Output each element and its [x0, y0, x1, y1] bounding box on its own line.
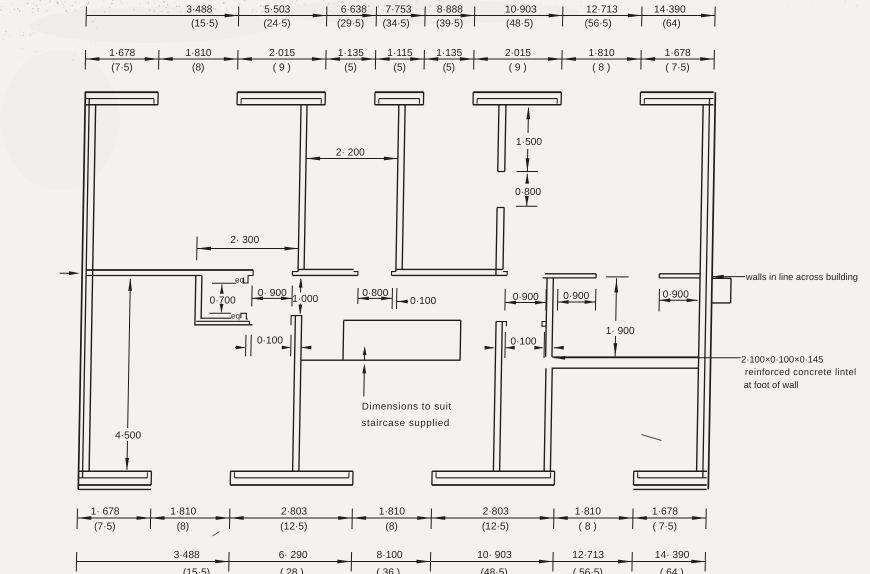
- scan speckle noise top band: [0, 0, 857, 61]
- svg-text:1·678: 1·678: [109, 48, 136, 59]
- spine wall segment C upper line: [396, 268, 503, 270]
- svg-text:( 8 ): ( 8 ): [592, 62, 610, 73]
- svg-text:(7·5): (7·5): [111, 62, 133, 73]
- svg-text:2· 300: 2· 300: [230, 235, 259, 246]
- dimension row 2 arrows: [85, 57, 99, 61]
- spine wall segment B lintel line: [292, 274, 358, 276]
- stray pencil mark right room: [642, 435, 662, 441]
- annotation: walls in line across building (with leader arrows): [712, 275, 724, 279]
- svg-text:(12·5): (12·5): [482, 521, 509, 532]
- svg-text:( 56·5): ( 56·5): [573, 567, 603, 574]
- svg-text:1·135: 1·135: [436, 48, 463, 59]
- svg-text:( 28 ): ( 28 ): [280, 567, 304, 574]
- svg-text:(39·5): (39·5): [436, 18, 463, 29]
- svg-text:0·100: 0·100: [257, 336, 284, 347]
- svg-text:1·810: 1·810: [379, 507, 406, 518]
- spine wall segment A upper line: [86, 269, 253, 271]
- svg-text:( 7·5): ( 7·5): [652, 521, 677, 532]
- spine wall segment C lintel line: [391, 274, 507, 276]
- dimension 2.200 between P1 and P2: [306, 158, 398, 160]
- dimension 4.500 room height left: [128, 279, 131, 428]
- cupboard bottom eq notch: [241, 313, 248, 319]
- svg-text:1·135: 1·135: [338, 48, 365, 59]
- dimension 1.500 on P3 upper stub: [527, 108, 529, 133]
- svg-text:0·900: 0·900: [563, 291, 590, 302]
- svg-text:( 36 ): ( 36 ): [376, 567, 400, 574]
- svg-text:( 7·5): ( 7·5): [665, 62, 690, 73]
- faint paper smudges: [0, 0, 580, 190]
- svg-text:7·753: 7·753: [385, 4, 412, 15]
- svg-text:(8): (8): [385, 521, 398, 532]
- svg-text:1· 900: 1· 900: [606, 326, 635, 337]
- top wall pier 2: [237, 91, 325, 93]
- svg-text:8·888: 8·888: [437, 4, 464, 15]
- dimension row 4 baseline: [77, 561, 706, 563]
- spine wall segment B upper line: [298, 268, 354, 270]
- svg-text:3·488: 3·488: [174, 550, 201, 561]
- dimension 0.900 right cupboard interior: [556, 289, 558, 311]
- right cupboard wall lintel nib: [542, 322, 546, 327]
- dimension 0.800 spine opening: [357, 288, 359, 304]
- svg-text:(7·5): (7·5): [94, 521, 116, 532]
- cupboard left wall: [194, 276, 197, 326]
- svg-text:2·100×0·100×0·145: 2·100×0·100×0·145: [741, 354, 823, 364]
- dimension row 1 baseline: [86, 15, 715, 17]
- right wall external projection: [712, 277, 731, 279]
- svg-text:1·810: 1·810: [185, 48, 212, 59]
- lintel at foot of wall (right rooms): [552, 356, 699, 358]
- svg-text:2· 200: 2· 200: [336, 148, 365, 159]
- dimension 0.700 cupboard interior: [212, 282, 236, 284]
- top wall pier 4: [473, 91, 561, 93]
- top wall pier 1 (corner): [85, 91, 158, 93]
- svg-text:5·503: 5·503: [264, 4, 291, 15]
- stray pencil mark bottom left: [213, 532, 220, 537]
- segment C lintel end nibs: [391, 272, 395, 276]
- dimension 0.100 right staircase wall nib: [485, 347, 494, 349]
- svg-text:( 9 ): ( 9 ): [509, 62, 527, 73]
- svg-text:10·903: 10·903: [505, 4, 537, 15]
- svg-text:0· 900: 0· 900: [258, 288, 287, 299]
- svg-text:(5): (5): [443, 62, 456, 73]
- svg-text:(24·5): (24·5): [263, 18, 290, 29]
- svg-text:12·713: 12·713: [572, 550, 604, 561]
- dimension 0.900 door right of P3: [504, 289, 506, 311]
- staircase wall left (below P1) with lintel nib: [293, 315, 296, 471]
- svg-text:8·100: 8·100: [376, 550, 403, 561]
- svg-text:at foot of wall: at foot of wall: [744, 380, 799, 390]
- svg-text:10· 903: 10· 903: [477, 550, 512, 561]
- staircase wall right (below P3) with lintel nib: [493, 322, 496, 472]
- svg-text:(56·5): (56·5): [584, 18, 611, 29]
- spine wall segment D (right cupboard top): [545, 273, 596, 275]
- svg-text:0·900: 0·900: [663, 289, 690, 300]
- svg-text:2·803: 2·803: [483, 507, 510, 518]
- svg-text:(12·5): (12·5): [280, 521, 307, 532]
- svg-text:0·100: 0·100: [410, 296, 437, 307]
- svg-text:0·100: 0·100: [510, 336, 537, 347]
- staircase outline: [344, 319, 461, 321]
- svg-text:walls in line across building: walls in line across building: [745, 272, 858, 282]
- svg-text:14·390: 14·390: [654, 4, 686, 15]
- svg-text:4·500: 4·500: [115, 431, 142, 442]
- svg-text:(48·5): (48·5): [480, 567, 507, 574]
- svg-text:1· 678: 1· 678: [91, 507, 120, 518]
- svg-text:2·015: 2·015: [505, 48, 532, 59]
- svg-text:1·810: 1·810: [170, 507, 197, 518]
- bottom wall pier D (corner): [634, 470, 707, 472]
- dimension row 4 arrows: [215, 560, 229, 564]
- svg-text:( 64 ): ( 64 ): [660, 567, 684, 574]
- spine wall end detail at cupboard door: [243, 270, 253, 283]
- wall below lintel to bottom pier C: [544, 368, 546, 471]
- svg-text:1·678: 1·678: [665, 48, 692, 59]
- bottom wall pier C: [432, 470, 555, 472]
- dimension 0.100 left staircase wall nib: [235, 347, 245, 349]
- left exterior wall: [78, 92, 85, 489]
- svg-text:reinforced concrete lintel: reinforced concrete lintel: [745, 367, 857, 377]
- svg-text:Dimensions to suit: Dimensions to suit: [362, 401, 452, 412]
- svg-text:1·500: 1·500: [516, 137, 543, 148]
- dimension 0.900 at right wall: [658, 289, 660, 312]
- spine wall segment E upper line: [659, 273, 700, 275]
- svg-text:0·900: 0·900: [513, 292, 540, 303]
- cupboard bottom inner line: [201, 317, 231, 319]
- top wall pier 5 (corner): [640, 91, 713, 93]
- svg-text:( 9 ): ( 9 ): [273, 62, 291, 73]
- right cupboard left wall: [546, 278, 547, 357]
- dimension row 1 ticks: [85, 7, 87, 27]
- cupboard bottom outer line: [195, 324, 253, 326]
- bottom wall pier B: [231, 470, 354, 472]
- top wall pier 3: [375, 91, 424, 93]
- partition P3 upper stub (1.500 long): [498, 105, 499, 172]
- dimension 1.000 spine to staircase wall: [300, 279, 302, 293]
- svg-text:( 8 ): ( 8 ): [578, 521, 596, 532]
- partition P2 (below top pier 3): [396, 105, 399, 272]
- svg-text:3·488: 3·488: [186, 4, 213, 15]
- svg-text:staircase supplied: staircase supplied: [361, 418, 450, 429]
- svg-text:1·678: 1·678: [652, 507, 679, 518]
- svg-text:(15·5): (15·5): [191, 18, 218, 29]
- bottom wall pier A (corner): [78, 470, 151, 472]
- svg-text:(29·5): (29·5): [337, 18, 364, 29]
- dimension row 2 baseline: [85, 58, 714, 60]
- svg-text:1·000: 1·000: [292, 294, 319, 305]
- svg-text:0·800: 0·800: [362, 288, 389, 299]
- dimension 0.800 door at P3: [525, 174, 529, 184]
- svg-text:0·800: 0·800: [515, 187, 542, 198]
- svg-text:(48·5): (48·5): [506, 18, 533, 29]
- left side wall alignment arrow: [60, 272, 70, 274]
- segment E end cap: [658, 274, 660, 278]
- svg-text:1·810: 1·810: [588, 48, 615, 59]
- dimension row 4 ticks: [75, 552, 77, 572]
- right exterior wall: [708, 92, 715, 489]
- svg-text:eq: eq: [235, 275, 244, 284]
- svg-text:(15·5): (15·5): [183, 567, 210, 574]
- annotation leader: reinforced concrete lintel: [554, 356, 565, 360]
- partition P3 lower stub: [496, 208, 497, 276]
- segment B lintel end nibs: [292, 272, 298, 276]
- dimension row 3 arrows: [77, 516, 91, 520]
- dimension 1.900 right cupboard depth: [606, 276, 629, 278]
- svg-text:(34·5): (34·5): [382, 18, 409, 29]
- annotation: staircase note with arrows: [363, 354, 365, 360]
- svg-text:(5): (5): [393, 62, 406, 73]
- cupboard bottom mid line: [196, 320, 249, 322]
- svg-text:6· 290: 6· 290: [279, 550, 308, 561]
- svg-text:0·700: 0·700: [210, 296, 237, 307]
- svg-text:2·803: 2·803: [281, 507, 308, 518]
- dimension row 3 baseline: [77, 517, 706, 519]
- svg-text:(8): (8): [192, 62, 205, 73]
- svg-text:12·713: 12·713: [586, 4, 618, 15]
- spine wall segment A lower line: [86, 275, 202, 277]
- svg-text:eq: eq: [231, 312, 240, 321]
- dimension row 3 ticks: [76, 509, 78, 530]
- dimension row 1 arrows: [225, 14, 239, 18]
- dimension 0.900 cupboard door (left): [251, 286, 253, 307]
- svg-text:1·115: 1·115: [387, 48, 413, 59]
- svg-text:(8): (8): [177, 521, 190, 532]
- dimension 2.300 cupboard to P1: [196, 237, 198, 261]
- svg-text:(64): (64): [662, 18, 680, 29]
- partition P1 (below top pier 2): [298, 105, 301, 272]
- svg-text:2·015: 2·015: [269, 48, 296, 59]
- dimension row 2 ticks: [84, 50, 86, 70]
- svg-text:6·638: 6·638: [341, 4, 368, 15]
- spine wall segment E lower line: [659, 277, 700, 279]
- svg-text:1·810: 1·810: [575, 507, 602, 518]
- svg-text:14· 390: 14· 390: [655, 550, 690, 561]
- svg-text:(5): (5): [344, 62, 357, 73]
- dimension 0.100 lintel nib at P2: [395, 288, 397, 309]
